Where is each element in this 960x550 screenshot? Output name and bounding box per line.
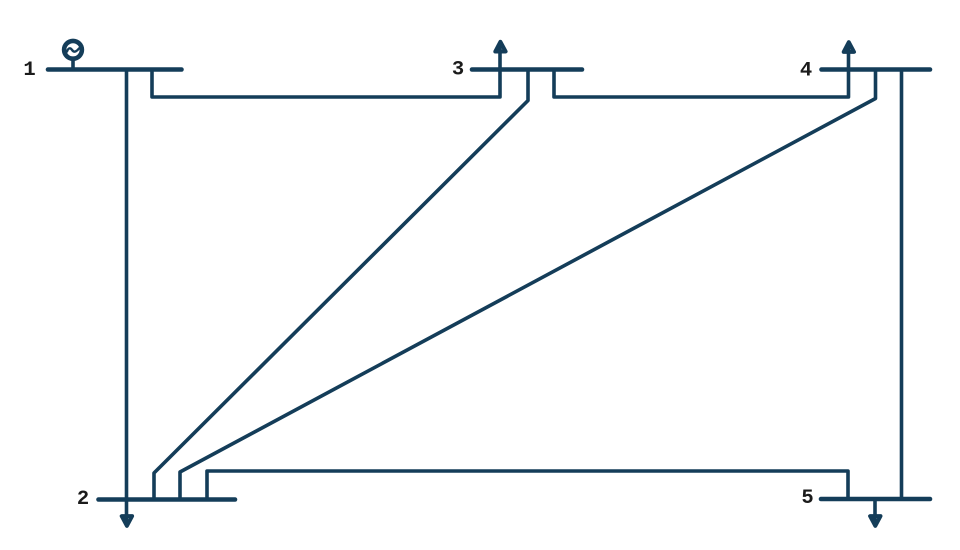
load arrowhead bus 2 (down, hollow)	[122, 516, 132, 526]
load arrowhead bus 5 (down, hollow)	[870, 516, 880, 526]
wire line 1-3	[152, 70, 500, 98]
generator G1 sine	[67, 48, 79, 51]
load arrow stem bus 4	[847, 46, 851, 70]
load arrow stem bus 5	[873, 499, 877, 522]
svg-text:2: 2	[77, 488, 89, 511]
bus 1	[48, 67, 182, 72]
load arrowhead bus 4 (up, hollow)	[844, 42, 854, 52]
wire line 2-4	[180, 70, 876, 500]
svg-text:5: 5	[801, 487, 813, 510]
svg-text:3: 3	[452, 59, 464, 82]
bus 2	[99, 497, 236, 502]
wire line 3-4	[554, 70, 849, 98]
wire line 4-5	[900, 70, 904, 500]
bus 3	[472, 67, 582, 72]
bus 4	[822, 67, 931, 72]
bus 5	[821, 497, 930, 502]
generator G1 circle	[64, 41, 82, 59]
generator G1 stem	[71, 61, 75, 69]
wire line 1-2 with load stem at bus 2	[125, 70, 129, 523]
load arrow stem bus 3	[498, 46, 502, 70]
svg-text:4: 4	[800, 60, 812, 83]
wire line 2-5	[207, 471, 848, 500]
svg-text:1: 1	[23, 59, 35, 82]
load arrowhead bus 3 (up, hollow)	[495, 42, 505, 52]
wire line 2-3	[154, 70, 528, 500]
